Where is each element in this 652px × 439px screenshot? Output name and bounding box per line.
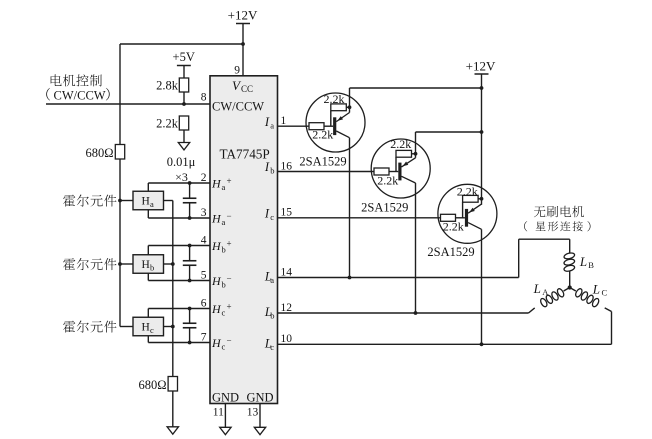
- svg-text:13: 13: [247, 407, 259, 419]
- wire LA lead out: [529, 308, 535, 313]
- wire Q1 B-E resistor to base: [330, 111, 332, 127]
- svg-text:15: 15: [281, 207, 293, 219]
- wire LB lead: [569, 239, 571, 253]
- label brushless motor: [534, 206, 584, 218]
- ground (pin 13): [254, 427, 265, 434]
- svg-text:a: a: [150, 199, 154, 209]
- U1 label Ha−: [211, 211, 232, 227]
- pin 16 label: [281, 160, 293, 172]
- pin 1 label: [281, 115, 287, 127]
- wire Hc output: [164, 326, 173, 328]
- U1 label GND left: [212, 391, 239, 405]
- wire R2 to ground: [183, 130, 185, 143]
- Q3 collector: [468, 223, 481, 230]
- wire pin 15 to Q3 base resistor: [278, 217, 441, 219]
- Q2 collector: [402, 176, 416, 183]
- wire +12V right vertical / Q3 emitter feed: [481, 74, 483, 205]
- node Q3 emitter tie: [480, 197, 484, 201]
- wire rail to Q1 emitter: [350, 87, 482, 89]
- U1 label Ic: [264, 207, 274, 223]
- ground (divider): [178, 143, 189, 150]
- pin 13 label: [247, 407, 259, 419]
- node C1 bottom: [188, 216, 192, 220]
- svg-text:H: H: [211, 212, 222, 226]
- wire Q2 collector down: [415, 183, 417, 313]
- svg-text:8: 8: [201, 92, 207, 104]
- svg-text:H: H: [211, 302, 222, 316]
- wire pin 14 riser: [519, 239, 570, 277]
- node C3 bottom: [188, 341, 192, 345]
- svg-text:6: 6: [201, 297, 207, 309]
- svg-text:680Ω: 680Ω: [138, 378, 166, 392]
- svg-text:2.2k: 2.2k: [457, 185, 478, 199]
- resistor Q2 base series 2.2k: [374, 168, 398, 188]
- wire LA lead from star: [564, 288, 570, 292]
- svg-text:H: H: [142, 322, 150, 334]
- resistor Q1 base-emitter 2.2k: [324, 92, 347, 111]
- wire LC lead out: [605, 308, 612, 312]
- Q3 emitter: [468, 204, 481, 213]
- wire +5V to R1: [183, 66, 185, 79]
- wire Q3 collector down: [481, 229, 483, 344]
- pin 7 label: [201, 331, 207, 343]
- svg-text:2.2k: 2.2k: [312, 127, 333, 141]
- wire Q3 B-E resistor to base: [462, 202, 464, 218]
- pin 4 label: [201, 234, 207, 246]
- svg-text:c: c: [222, 308, 226, 318]
- transistor Q2 2SA1529 body: [371, 139, 430, 198]
- U1 label GND right: [247, 391, 274, 405]
- wire pin 14 output: [278, 277, 519, 279]
- hall sensor Ha: [133, 191, 164, 210]
- U1 label Lc: [264, 336, 274, 352]
- capacitor C3 0.01u: [183, 309, 197, 343]
- wire bias to Hb: [120, 263, 133, 265]
- wire bias to Ha: [120, 200, 133, 202]
- svg-text:+12V: +12V: [228, 8, 258, 23]
- svg-text:3: 3: [201, 207, 207, 219]
- wire +12V to hall pull-up rail: [120, 43, 243, 45]
- svg-text:a: a: [270, 120, 274, 130]
- wire pin 11 to ground: [224, 404, 226, 428]
- U1 label Ha+: [211, 176, 232, 192]
- svg-text:2.2k: 2.2k: [390, 137, 411, 151]
- U1 label TA7745P: [220, 147, 270, 162]
- wire LB to star: [569, 271, 571, 288]
- wire Hb+ pin wire: [148, 245, 210, 247]
- wire Lc riser: [611, 312, 613, 345]
- resistor Q3 base series 2.2k: [441, 214, 464, 233]
- svg-text:H: H: [211, 274, 222, 288]
- svg-text:7: 7: [201, 331, 207, 343]
- node +12V branch: [241, 42, 245, 46]
- wire Q2 B-E resistor to emitter: [412, 153, 416, 155]
- label 0.01u: [167, 155, 196, 169]
- U1 label Hc+: [211, 302, 232, 318]
- wire Q2 B-E resistor to base: [395, 157, 397, 171]
- U1 label Hb+: [211, 239, 232, 255]
- pin 15 label: [281, 207, 293, 219]
- svg-text:2.2k: 2.2k: [377, 174, 398, 188]
- svg-text:H: H: [142, 196, 150, 208]
- svg-text:c: c: [222, 342, 226, 352]
- pin 10 label: [281, 333, 293, 345]
- svg-text:CW/CCW: CW/CCW: [54, 88, 106, 102]
- svg-text:+: +: [227, 239, 232, 249]
- wire pin 10 output: [278, 343, 612, 345]
- svg-text:5: 5: [201, 269, 207, 281]
- label star connection: [524, 221, 590, 231]
- node Q2 collector junction: [414, 311, 418, 315]
- svg-text:I: I: [264, 160, 270, 174]
- U1 label Ia: [264, 115, 274, 130]
- label Q2 2SA1529: [361, 200, 408, 214]
- svg-text:+5V: +5V: [173, 50, 195, 64]
- svg-text:b: b: [270, 311, 274, 321]
- resistor Q2 base-emitter 2.2k: [390, 137, 411, 157]
- resistor Q3 base-emitter 2.2k: [457, 185, 478, 203]
- label LA: [533, 281, 550, 297]
- svg-text:11: 11: [213, 407, 224, 419]
- svg-text:2SA1529: 2SA1529: [299, 154, 346, 168]
- resistor R1 2.8k: [156, 78, 189, 93]
- svg-text:B: B: [588, 260, 594, 270]
- svg-text:+: +: [227, 302, 232, 312]
- inductor LC winding: [574, 288, 600, 308]
- wire Hc bottom to pin: [147, 336, 149, 343]
- svg-text:GND: GND: [247, 391, 274, 405]
- svg-text:b: b: [222, 280, 226, 290]
- wire LC lead from star: [570, 288, 576, 292]
- node Q2 rail tap: [480, 130, 484, 134]
- capacitor C2 0.01u: [183, 246, 197, 281]
- label Q3 2SA1529: [427, 245, 474, 259]
- Q1 collector: [336, 131, 349, 138]
- svg-text:2.2k: 2.2k: [156, 117, 179, 131]
- Q2 emitter: [402, 132, 416, 167]
- node Ha bias tap: [118, 199, 122, 203]
- U1 label CW/CCW: [212, 100, 264, 114]
- wire CW/CCW input to IC pin 8: [46, 103, 210, 105]
- node Hb return tap: [171, 262, 175, 266]
- U1 label Lb: [264, 305, 275, 321]
- pin 12 label: [281, 302, 293, 314]
- node Q3 collector junction: [480, 342, 484, 346]
- pin 11 label: [213, 407, 224, 419]
- pin 14 label: [281, 266, 293, 278]
- hall sensor Hb: [133, 255, 164, 274]
- wire Q2 base: [389, 171, 398, 173]
- wire R1 to CW/CCW node: [183, 92, 185, 104]
- wire pin 1 to Q1 base resistor: [278, 125, 310, 127]
- label motor control: [51, 74, 102, 86]
- svg-text:9: 9: [234, 65, 240, 77]
- op-amp U1 TA7745P body: [210, 76, 278, 404]
- label hall element Hc: [63, 320, 116, 332]
- power +12V (right): [466, 59, 496, 75]
- label hall element Hb: [63, 258, 116, 270]
- resistor R3 680ohm: [85, 145, 124, 161]
- wire Hb top to pin: [147, 246, 149, 255]
- svg-text:2: 2: [201, 172, 207, 184]
- node Hc return tap: [171, 325, 175, 329]
- node C2 bottom: [188, 279, 192, 283]
- wire Q3 B-E resistor to emitter: [478, 198, 481, 200]
- svg-text:L: L: [533, 281, 541, 296]
- U1 label Hc−: [211, 336, 232, 352]
- svg-text:+12V: +12V: [466, 59, 496, 74]
- node Q2 emitter tie: [414, 152, 418, 156]
- svg-text:b: b: [270, 166, 274, 176]
- label LC: [592, 282, 608, 298]
- label (CW/CCW): [46, 88, 109, 102]
- svg-text:2.2k: 2.2k: [324, 92, 345, 106]
- wire Hb output: [164, 263, 173, 265]
- wire rail to Q2 emitter: [416, 131, 482, 133]
- wire R4 to ground: [172, 391, 174, 427]
- U1 label Hb−: [211, 274, 232, 290]
- transistor Q1 2SA1529 body: [306, 93, 365, 152]
- svg-text:a: a: [222, 217, 226, 227]
- svg-text:a: a: [222, 182, 226, 192]
- wire Q1 B-E resistor to emitter: [346, 106, 349, 108]
- node C3 top: [188, 307, 192, 311]
- resistor Q1 base series 2.2k: [309, 123, 333, 142]
- pin 2 label: [201, 172, 207, 184]
- svg-text:A: A: [542, 287, 549, 297]
- wire pin 13 to ground: [259, 404, 261, 428]
- svg-text:1: 1: [281, 115, 287, 127]
- svg-text:2.2k: 2.2k: [443, 220, 464, 234]
- node Hb bias tap: [118, 262, 122, 266]
- svg-text:H: H: [211, 177, 222, 191]
- pin 5 label: [201, 269, 207, 281]
- svg-text:16: 16: [281, 160, 293, 172]
- svg-text:0.01μ: 0.01μ: [167, 155, 196, 169]
- node divider tap: [182, 102, 186, 106]
- pin 8 label: [201, 92, 207, 104]
- Q1 emitter: [336, 88, 349, 122]
- node C2 top: [188, 244, 192, 248]
- svg-text:4: 4: [201, 234, 207, 246]
- svg-text:−: −: [227, 274, 232, 284]
- wire +12V rail down to R3: [119, 44, 121, 145]
- svg-text:C: C: [602, 288, 608, 298]
- pin 3 label: [201, 207, 207, 219]
- svg-text:TA7745P: TA7745P: [220, 147, 270, 162]
- U1 label La: [264, 270, 274, 286]
- svg-text:b: b: [222, 245, 226, 255]
- U1 label Ib: [264, 160, 275, 176]
- svg-text:10: 10: [281, 333, 293, 345]
- node Q1 collector junction: [348, 276, 352, 280]
- svg-text:c: c: [150, 325, 154, 335]
- svg-text:14: 14: [281, 266, 293, 278]
- svg-text:L: L: [579, 254, 587, 269]
- svg-text:−: −: [227, 211, 232, 221]
- svg-text:2.8k: 2.8k: [156, 79, 179, 93]
- U1 label Vcc: [232, 78, 253, 94]
- wire Ha- pin wire: [148, 217, 210, 219]
- inductor LA winding: [539, 288, 565, 308]
- svg-text:680Ω: 680Ω: [85, 146, 113, 160]
- resistor R2 2.2k: [156, 116, 189, 131]
- svg-text:2SA1529: 2SA1529: [361, 200, 408, 214]
- svg-text:12: 12: [281, 302, 293, 314]
- wire pin 16 to Q2 base resistor: [278, 171, 375, 173]
- Q3 base bar: [465, 209, 468, 227]
- wire Ha+ pin wire: [148, 182, 210, 184]
- wire Q1 collector down: [349, 138, 351, 278]
- hall sensor Hc: [133, 317, 164, 336]
- svg-text:H: H: [211, 336, 222, 350]
- node star point: [568, 285, 572, 289]
- label x3: [175, 170, 188, 184]
- wire Ha bottom to pin: [147, 210, 149, 218]
- wire Q1 base: [324, 125, 333, 127]
- power +5V: [173, 50, 195, 66]
- svg-text:2SA1529: 2SA1529: [427, 245, 474, 259]
- transistor Q3 2SA1529 body: [438, 184, 497, 243]
- svg-text:+: +: [227, 176, 232, 186]
- wire Hb bottom to pin: [147, 273, 149, 280]
- wire Hb- pin wire: [148, 280, 210, 282]
- svg-text:H: H: [211, 239, 222, 253]
- svg-text:CC: CC: [241, 84, 253, 94]
- ground (hall return): [167, 427, 178, 434]
- svg-text:CW/CCW: CW/CCW: [212, 100, 264, 114]
- resistor R4 680ohm: [138, 377, 177, 393]
- svg-text:L: L: [592, 282, 600, 297]
- wire bias to Hc: [120, 326, 133, 328]
- svg-text:I: I: [264, 207, 270, 221]
- svg-text:GND: GND: [212, 391, 239, 405]
- wire Q3 base: [456, 217, 465, 219]
- svg-text:×3: ×3: [175, 170, 188, 184]
- wire hall bias rail: [119, 159, 121, 327]
- pin 9 label: [234, 65, 240, 77]
- wire hall common return: [172, 201, 174, 377]
- ground (pin 11): [220, 427, 231, 434]
- svg-text:−: −: [227, 336, 232, 346]
- wire Hc top to pin: [147, 309, 149, 318]
- svg-text:H: H: [142, 259, 150, 271]
- Q1 base bar: [333, 117, 336, 135]
- label Q1 2SA1529: [299, 154, 346, 168]
- node Q1 rail tap: [480, 86, 484, 90]
- wire pin 12 output: [278, 312, 529, 314]
- node C1 top: [188, 181, 192, 185]
- svg-text:c: c: [270, 342, 274, 352]
- capacitor C1 0.01u: [183, 183, 197, 218]
- label LB: [579, 254, 594, 270]
- Q2 base bar: [398, 163, 401, 181]
- power +12V (left): [228, 8, 258, 24]
- svg-text:c: c: [270, 212, 274, 222]
- pin 6 label: [201, 297, 207, 309]
- wire Ha top to pin: [147, 183, 149, 191]
- node Q1 emitter tie: [348, 105, 352, 109]
- svg-text:b: b: [150, 263, 154, 273]
- inductor LB winding: [563, 252, 575, 272]
- wire Ha output: [164, 200, 173, 202]
- wire +12V to IC pin 9: [242, 24, 244, 76]
- svg-text:a: a: [270, 275, 274, 285]
- wire Hc+ pin wire: [148, 308, 210, 310]
- label hall element Ha: [63, 194, 116, 206]
- svg-text:I: I: [264, 115, 270, 129]
- wire Hc- pin wire: [148, 342, 210, 344]
